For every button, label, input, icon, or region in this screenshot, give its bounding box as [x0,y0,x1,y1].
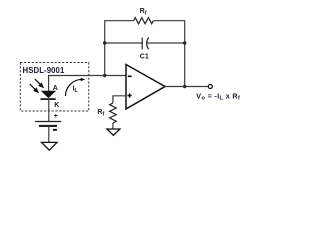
wire: C1 branch right [146,42,184,44]
current arrow IL (curved) [65,79,82,96]
battery cell [35,122,61,126]
svg-text:A: A [53,85,58,92]
wire: battery to ground [48,126,50,142]
wire: top feedback right segment [153,21,184,87]
dashed module box HSDL-9001 [20,63,89,112]
op-amp plus symbol [128,93,132,97]
svg-text:C1: C1 [140,54,149,61]
svg-text:+: + [54,113,58,120]
node: junction output [183,85,186,88]
wire: output [165,86,208,88]
svg-text:K: K [54,102,59,109]
label - (battery) [53,129,57,131]
resistor Rf (bias) [110,103,117,123]
light arrow 1 [35,79,43,87]
node: junction C1 right [183,41,186,44]
ground (bias resistor) [107,129,120,135]
svg-text:Vo = -IL x Rf: Vo = -IL x Rf [196,91,240,101]
node: junction inverting input [103,74,106,77]
resistor Rf (feedback) [134,18,154,24]
light arrow 2 [30,84,38,92]
wire: resistor to ground [112,123,114,129]
op-amp U1 [126,65,165,110]
wire: top feedback left segment [105,21,134,76]
capacitor C1 [142,38,148,50]
wire: C1 branch left [105,42,143,44]
output terminal [208,85,212,89]
op-amp minus symbol [128,76,132,78]
svg-text:Rf: Rf [140,8,147,17]
photodiode D1 [41,91,56,99]
ground (battery) [42,142,57,150]
svg-text:Rf: Rf [97,109,104,118]
wire: non-inverting input [113,96,126,103]
svg-text:HSDL-9001: HSDL-9001 [23,66,65,75]
wire: anode to inverting input [49,76,126,93]
svg-text:IL: IL [73,85,79,94]
wire: cathode to battery [48,99,50,121]
node: junction C1 left [103,41,106,44]
